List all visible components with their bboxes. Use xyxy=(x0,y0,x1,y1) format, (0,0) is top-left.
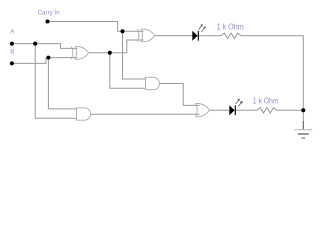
node Carry In terminal xyxy=(46,20,50,24)
wire XOR1 output junction down to AND1 bottom input xyxy=(110,53,146,88)
svg-text:A: A xyxy=(10,29,15,36)
wire right rail node down to ground xyxy=(302,110,304,121)
wire input A to XOR1 top input xyxy=(12,44,78,49)
wire XOR2 output to LED D1 anode xyxy=(154,35,192,37)
svg-text:1 k Ohm: 1 k Ohm xyxy=(217,23,244,32)
svg-text:B: B xyxy=(10,49,14,56)
wire Carry In to XOR2 top input xyxy=(48,22,144,32)
wire input B to XOR1 bottom input xyxy=(12,58,78,64)
and-gate U4 (bottom left) xyxy=(77,108,91,120)
svg-text:Carry In: Carry In xyxy=(38,10,61,17)
xor-gate U1 (sum of A,B) xyxy=(71,47,88,60)
or-gate U5 (carry out) xyxy=(196,104,210,117)
wire node CIN junction down to AND1 top input xyxy=(123,31,146,79)
wire resistor R1 to right rail down to node xyxy=(241,36,303,111)
wire resistor R2 to right rail node xyxy=(277,109,304,111)
resistor R1 1k xyxy=(221,33,241,38)
node A branch junction xyxy=(33,42,37,46)
wire node B junction down to AND2 top input xyxy=(48,58,76,109)
node B branch junction xyxy=(46,56,50,60)
node B terminal xyxy=(10,61,14,65)
resistor R2 1k xyxy=(257,108,277,113)
node Carry In branch junction xyxy=(121,29,125,33)
LED D2 (carry indicator) xyxy=(229,99,242,115)
and-gate U3 (A.B ... carry chain) xyxy=(146,77,160,89)
wire OR output to LED D2 anode xyxy=(209,109,229,111)
wire node A junction down to AND2 bottom input xyxy=(35,44,76,119)
ground symbol xyxy=(294,130,312,138)
wire LED D2 cathode to resistor R2 xyxy=(235,109,257,111)
svg-text:1 k Ohm: 1 k Ohm xyxy=(253,97,279,106)
wire LED D1 cathode to resistor R1 xyxy=(198,35,221,37)
node right rail junction xyxy=(301,108,305,112)
wire AND1 output to OR top input xyxy=(160,84,200,106)
wire AND2 output to OR bottom input xyxy=(91,113,200,115)
node A terminal xyxy=(10,42,14,46)
node XOR1 output junction xyxy=(108,51,112,55)
wire XOR1 output to XOR2 bottom input xyxy=(89,40,144,53)
xor-gate U2 (sum output) xyxy=(137,29,154,42)
LED D1 (sum indicator) xyxy=(192,25,205,41)
